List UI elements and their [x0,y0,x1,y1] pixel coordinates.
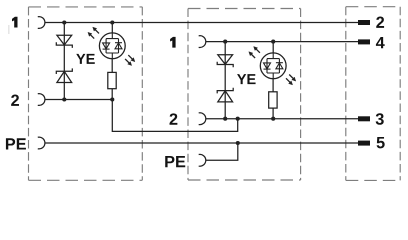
junction: middle PE tap on PE rail [236,141,240,145]
junction: left LED branch top [110,20,114,24]
resistor R2 (middle) [269,92,277,108]
wire: LED to resistor (middle) [272,79,274,92]
wire: left suppressor branch [63,23,65,100]
light arrows lower-right (middle LED) [286,75,296,85]
wire: left terminal 1 to pin 2 [45,22,359,24]
wire: LED to resistor (left) [111,59,113,73]
junction: middle zener branch top [223,40,227,44]
wire: resistor R2 to terminal 2 rail (middle) [272,108,274,119]
light arrows lower-right (left LED) [125,55,135,65]
wire: middle PE up to PE rail [206,143,238,160]
terminal 2 label (left) [11,95,19,106]
terminal 2 socket contact (middle) [199,113,206,125]
LED indicator circle (middle) [260,53,286,79]
LED chip diode right (left LED, cathode up) [115,43,122,49]
terminal PE socket contact (left) [38,137,45,149]
suppressor diode V1 (left, cathode down) [56,35,72,48]
wire: resistor R1 to terminal 2 rail [111,89,113,100]
terminal 1 socket contact (left) [38,17,45,29]
suppressor diode V4 (middle, cathode up) [217,88,233,102]
terminal PE label (middle) [165,156,185,167]
LED colour label YE (left) [76,54,95,64]
LED colour label YE (middle) [237,74,256,84]
pin 5 contact (filled) [358,141,370,146]
LED chip diode left (middle LED, cathode down) [264,63,271,69]
pin 3 label [376,113,384,125]
wire: PE rail to pin 5 [45,142,359,144]
junction: left resistor bottom [110,97,114,101]
junction: middle resistor bottom [271,117,275,121]
pin 2 contact (filled) [358,20,370,25]
resistor R1 (left) [108,72,116,88]
terminal 1 label (left) [12,17,18,28]
terminal PE socket contact (middle) [199,154,206,166]
plug housing right (dashed outline) [346,7,400,181]
wire: middle suppressor branch [224,42,226,119]
suppressor diode V3 (middle, cathode down) [217,55,233,68]
connector housing middle (dashed outline) [188,9,301,181]
connector housing left (dashed outline) [29,7,143,180]
wire: middle terminal 2 to pin 3 [206,118,359,120]
light arrows upper-left (left LED) [88,27,99,38]
terminal 1 label (middle) [170,37,176,48]
LED chip diode right (middle LED, cathode up) [276,63,283,69]
junction: left zener branch bottom [62,97,66,101]
pin 3 contact (filled) [358,116,370,121]
pin 4 label [376,37,385,48]
wire: middle terminal 1 to pin 4 [206,41,359,43]
wire: LED branch stub (middle) [272,42,274,53]
LED chip diode left (left LED, cathode down) [103,43,110,49]
junction: middle LED branch top [271,40,275,44]
pin 5 label [377,137,385,148]
terminal PE label (left) [6,138,26,149]
junction: middle zener branch bottom [223,117,227,121]
LED chip frame (middle) [267,53,279,79]
terminal 2 socket contact (left) [38,94,45,106]
LED indicator circle (left) [99,33,125,59]
junction: link from left circuit [236,117,240,121]
terminal 2 label (middle) [170,113,178,124]
terminal 1 socket contact (middle) [199,36,206,48]
stray dash fragment left margin [8,25,10,34]
wire: LED branch stub (left) [111,23,113,34]
pin 4 contact (filled) [358,39,370,44]
wire: left terminal 2 to middle node [45,100,238,132]
suppressor diode V2 (left, cathode up) [56,68,72,82]
pin 2 label [376,17,384,28]
light arrows upper-left (middle LED) [249,47,260,59]
LED chip frame (left) [106,33,118,59]
junction: left zener branch top [62,20,66,24]
